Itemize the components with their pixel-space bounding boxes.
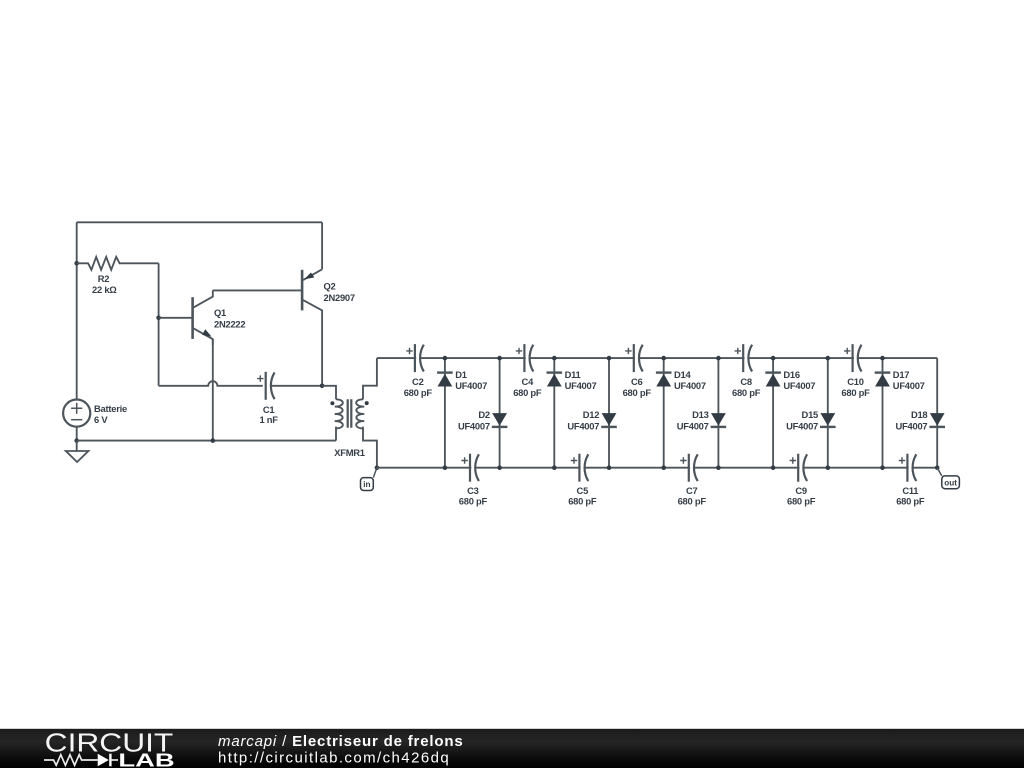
- capacitor C4 680 pF: [513, 344, 542, 398]
- transformer XFMR1: [330, 399, 368, 458]
- capacitor C5 680 pF: [568, 454, 597, 507]
- svg-text:UF4007: UF4007: [783, 380, 815, 391]
- footer bar: [0, 729, 1024, 768]
- wire: Q1 collector to Q2 base: [213, 289, 302, 291]
- svg-text:680 pF: 680 pF: [787, 496, 816, 507]
- node flag: in: [361, 465, 380, 490]
- svg-text:680 pF: 680 pF: [841, 387, 870, 398]
- node: Q2 collector / C1 / transformer: [320, 384, 325, 389]
- svg-text:680 pF: 680 pF: [896, 496, 925, 507]
- svg-text:680 pF: 680 pF: [623, 387, 652, 398]
- svg-text:680 pF: 680 pF: [732, 387, 761, 398]
- svg-text:UF4007: UF4007: [567, 420, 599, 431]
- svg-text:C7: C7: [686, 485, 698, 496]
- svg-text:1 nF: 1 nF: [259, 414, 278, 425]
- wire: left vertical from top rail to battery: [76, 222, 78, 399]
- svg-text:R2: R2: [98, 273, 110, 284]
- wire: primary bottom to ground rail: [335, 427, 337, 441]
- wire: C1 to Q2 collector node: [271, 385, 322, 387]
- svg-text:C11: C11: [902, 485, 918, 496]
- svg-text:680 pF: 680 pF: [459, 496, 488, 507]
- svg-text:6 V: 6 V: [94, 414, 108, 425]
- diode D15 UF4007: [786, 358, 835, 468]
- svg-text:680 pF: 680 pF: [568, 496, 597, 507]
- diode D16 UF4007: [765, 358, 815, 468]
- svg-text:marcapi / Electriseur de frelo: marcapi / Electriseur de frelons: [218, 733, 464, 750]
- ground: [66, 441, 89, 462]
- svg-text:UF4007: UF4007: [893, 380, 925, 391]
- svg-text:680 pF: 680 pF: [404, 387, 433, 398]
- svg-text:D13: D13: [692, 409, 708, 420]
- svg-text:out: out: [944, 478, 957, 487]
- wire: secondary top to multiplier top rail: [363, 358, 377, 399]
- battery V1 Batterie 6V: [63, 400, 127, 441]
- svg-text:UF4007: UF4007: [674, 380, 706, 391]
- capacitor C6 680 pF: [623, 344, 652, 398]
- svg-text:UF4007: UF4007: [565, 380, 597, 391]
- svg-text:XFMR1: XFMR1: [334, 447, 365, 458]
- svg-text:C3: C3: [467, 485, 479, 496]
- diode D18 UF4007: [896, 409, 945, 431]
- svg-text:UF4007: UF4007: [896, 420, 928, 431]
- diode D11 UF4007: [547, 358, 597, 468]
- capacitor C9 680 pF: [787, 454, 816, 507]
- svg-text:C8: C8: [740, 376, 752, 387]
- svg-text:C2: C2: [412, 376, 424, 387]
- svg-text:D2: D2: [478, 409, 490, 420]
- svg-text:C5: C5: [577, 485, 589, 496]
- svg-text:UF4007: UF4007: [677, 420, 709, 431]
- wire: Q1 emitter down: [212, 339, 214, 440]
- svg-text:D14: D14: [674, 369, 691, 380]
- svg-text:D16: D16: [783, 369, 799, 380]
- capacitor C7 680 pF: [678, 454, 707, 507]
- svg-text:C4: C4: [522, 376, 535, 387]
- diode D17 UF4007: [875, 358, 925, 468]
- svg-text:Q1: Q1: [214, 307, 226, 318]
- node flag: out: [937, 468, 959, 489]
- svg-text:LAB: LAB: [118, 749, 174, 768]
- diode D14 UF4007: [656, 358, 706, 468]
- svg-text:http://circuitlab.com/ch426dq: http://circuitlab.com/ch426dq: [218, 750, 450, 767]
- node: Q1 emitter to ground rail: [211, 438, 216, 443]
- resistor R2: [77, 257, 159, 295]
- svg-text:D15: D15: [802, 409, 818, 420]
- svg-text:680 pF: 680 pF: [513, 387, 542, 398]
- wire: multiplier bottom rail: [377, 467, 937, 469]
- wire: right end vertical: [936, 358, 938, 468]
- wire: multiplier top rail: [377, 357, 937, 359]
- wire: R2 right down to C1 row: [158, 263, 160, 386]
- node: Q1 base tee: [156, 316, 161, 321]
- svg-text:Q2: Q2: [324, 280, 336, 291]
- capacitor C11 680 pF: [896, 454, 925, 507]
- capacitor C8 680 pF: [732, 344, 761, 398]
- junction dots: top rail: [443, 356, 885, 361]
- diode D2 UF4007: [458, 358, 507, 468]
- capacitor C1 1 nF: [257, 372, 278, 425]
- wire: C1 row with hop over Q1 emitter: [159, 381, 263, 386]
- wire: node to transformer primary: [322, 386, 336, 400]
- diode D12 UF4007: [567, 358, 616, 468]
- CircuitLab logo resistor-diode glyph: [44, 754, 118, 767]
- svg-text:UF4007: UF4007: [786, 420, 818, 431]
- wire: Q2 emitter drop from top rail: [321, 222, 323, 269]
- svg-text:C10: C10: [847, 376, 863, 387]
- svg-text:UF4007: UF4007: [458, 420, 490, 431]
- svg-text:Batterie: Batterie: [94, 403, 127, 414]
- svg-text:C6: C6: [631, 376, 643, 387]
- svg-text:2N2907: 2N2907: [324, 292, 355, 303]
- svg-text:680 pF: 680 pF: [678, 496, 707, 507]
- svg-text:D17: D17: [893, 369, 909, 380]
- wire: Q1 base: [159, 317, 193, 319]
- svg-text:in: in: [363, 480, 370, 489]
- node: R2/battery junction: [74, 261, 79, 266]
- svg-text:D12: D12: [583, 409, 599, 420]
- svg-text:D11: D11: [565, 369, 581, 380]
- diode D1 UF4007: [437, 358, 487, 468]
- capacitor C2 680 pF: [404, 344, 433, 398]
- wire: secondary bottom to in node: [363, 427, 377, 468]
- capacitor C10 680 pF: [841, 344, 870, 398]
- node: battery negative junction: [74, 438, 79, 443]
- junction dots: bottom rail: [443, 465, 940, 470]
- svg-text:D18: D18: [911, 409, 927, 420]
- wire: top rail: [77, 221, 322, 223]
- diode D13 UF4007: [677, 358, 726, 468]
- svg-text:UF4007: UF4007: [455, 380, 487, 391]
- svg-text:2N2222: 2N2222: [214, 318, 245, 329]
- transistor Q2 2N2907 (PNP): [302, 269, 355, 386]
- svg-text:22 kΩ: 22 kΩ: [92, 284, 117, 295]
- transistor Q1 2N2222 (NPN): [193, 290, 246, 345]
- wire: bottom return rail of oscillator: [77, 440, 336, 442]
- capacitor C3 680 pF: [459, 454, 488, 507]
- svg-text:D1: D1: [455, 369, 467, 380]
- svg-text:C9: C9: [795, 485, 807, 496]
